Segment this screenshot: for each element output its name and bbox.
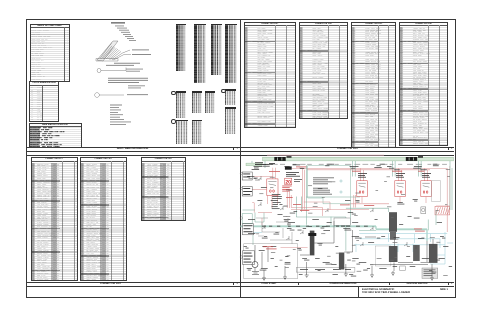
contact symbols [258, 176, 407, 246]
starter motor [252, 262, 258, 268]
red hatched caution box [435, 206, 450, 215]
black cluster above relay K2 [358, 173, 367, 177]
junction box on bus [334, 218, 350, 225]
wide teal bus [241, 226, 428, 229]
solenoid dark streak [310, 231, 315, 256]
circle component [421, 207, 426, 214]
outer page frame [26, 19, 456, 298]
bottom sheets footer strip [26, 282, 454, 287]
harness fan-out sketch [96, 41, 131, 61]
connector outline box right [432, 181, 441, 202]
left edge connectors [242, 172, 254, 264]
small box b1 [375, 246, 391, 266]
label texts [106, 22, 151, 124]
cold start region box [244, 244, 298, 279]
teal signal wires [243, 161, 453, 251]
teal harness boundary box [308, 166, 351, 204]
relay K2 [357, 181, 368, 197]
relay K1 [267, 179, 278, 196]
TC logo right [406, 156, 423, 161]
black cluster above relay K3 [396, 173, 405, 177]
svg-text:00: 00 [423, 189, 429, 194]
wire marking instruction diagram [90, 18, 182, 148]
black cluster above relay K4 [422, 173, 431, 177]
ignition harness dark cluster [389, 212, 397, 232]
red power wires [252, 166, 450, 247]
small box b2 [422, 268, 438, 278]
title block [358, 286, 456, 297]
general speckle [249, 169, 451, 276]
wire gauge callout [95, 68, 126, 98]
dark interconnect wires [255, 221, 433, 276]
relay K3 [395, 181, 406, 197]
ign table rows [424, 270, 436, 276]
wire label texts [244, 164, 453, 277]
vertical sheet divider [239, 19, 242, 297]
mid-left gray wires [256, 218, 292, 244]
pink feeder line above bar [267, 154, 384, 156]
ignition switch cluster [389, 246, 398, 262]
ground bus bar [263, 157, 454, 161]
svg-text:20: 20 [285, 180, 291, 186]
relay K4 [421, 181, 432, 197]
battery [252, 272, 259, 275]
revision balloons [240, 172, 242, 258]
label block right of fuse [286, 172, 302, 182]
svg-text:00: 00 [397, 189, 403, 194]
ground symbols [262, 271, 434, 281]
svg-text:00: 00 [269, 188, 275, 193]
gray labels under ground bar [264, 163, 447, 166]
red labels [263, 167, 425, 250]
black cluster topleft of schematic [255, 162, 275, 165]
small box near ign [400, 266, 405, 270]
dark streak 2 [339, 253, 344, 270]
TC logo left [274, 156, 291, 161]
long red rail mid [291, 209, 369, 211]
cyan wires [242, 232, 453, 264]
left teal connector box [242, 214, 252, 224]
svg-text:00: 00 [359, 189, 365, 194]
switch top circles [393, 245, 434, 250]
top sheets footer strip [26, 147, 454, 152]
red fuse table under F-20 [282, 186, 292, 192]
fuse F-20 [285, 166, 292, 169]
bottom wide box [296, 268, 355, 273]
dense cluster mid-left [271, 194, 282, 209]
